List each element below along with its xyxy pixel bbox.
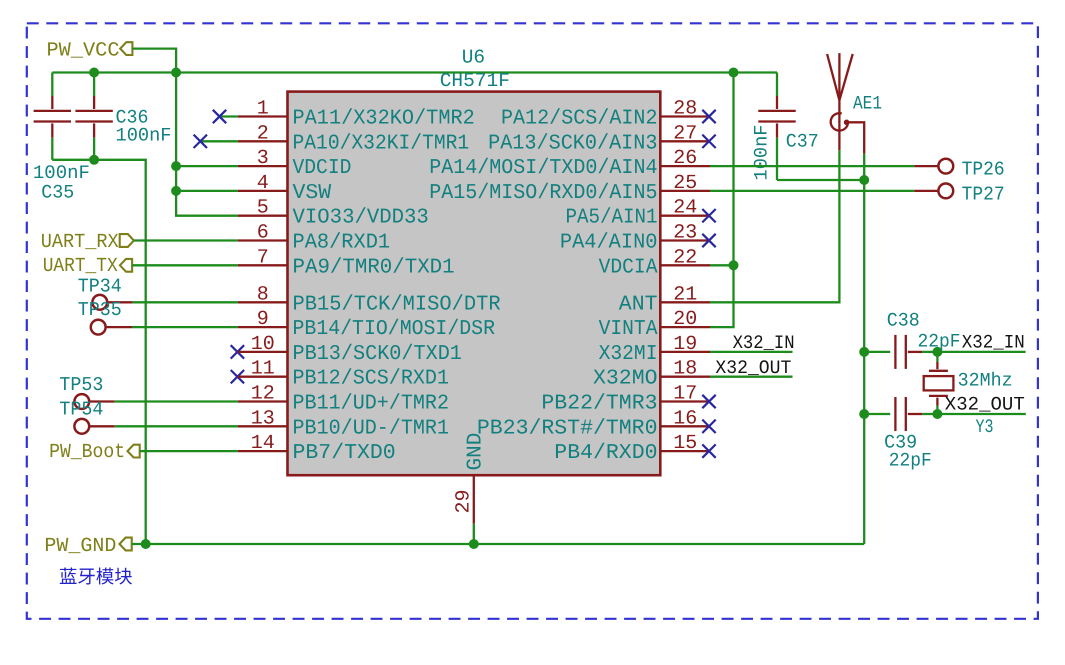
pin 14 line — [238, 450, 288, 452]
svg-text:VDCIA: VDCIA — [599, 256, 658, 279]
svg-text:7: 7 — [257, 246, 269, 269]
svg-text:8: 8 — [257, 283, 269, 306]
wire to pin3 — [176, 165, 238, 167]
svg-text:PA15/MISO/RXD0/AIN5: PA15/MISO/RXD0/AIN5 — [429, 182, 657, 205]
svg-text:26: 26 — [673, 147, 697, 170]
svg-text:PA8/RXD1: PA8/RXD1 — [293, 232, 391, 255]
svg-text:GND: GND — [464, 433, 487, 471]
no-connect pin11 — [231, 370, 244, 383]
svg-text:PA9/TMR0/TXD1: PA9/TMR0/TXD1 — [293, 256, 455, 279]
svg-text:C38: C38 — [887, 310, 920, 332]
junction crystal top — [932, 347, 942, 357]
pin 19 line — [660, 351, 710, 353]
UART_TX port glyph — [120, 259, 132, 272]
wire UART_RX to pin6 — [134, 239, 238, 241]
junction C36 bottom — [89, 155, 99, 165]
wire TP35 to pin9 — [132, 326, 238, 328]
svg-text:PA12/SCS/AIN2: PA12/SCS/AIN2 — [501, 108, 658, 131]
svg-text:PB12/SCS/RXD1: PB12/SCS/RXD1 — [293, 368, 450, 391]
no-connect pin23 — [702, 234, 715, 247]
pin 25 line — [660, 190, 710, 192]
svg-text:PW_GND: PW_GND — [44, 535, 116, 558]
test point TP27 — [914, 190, 939, 192]
pin 24 line — [660, 215, 710, 217]
svg-text:VINTA: VINTA — [599, 318, 658, 341]
no-connect pin24 — [702, 209, 715, 222]
junction crystal bottom — [932, 409, 942, 419]
test point TP34 — [92, 295, 107, 310]
svg-text:UART_RX: UART_RX — [41, 231, 119, 254]
crystal Y3 32Mhz — [936, 352, 938, 362]
svg-text:20: 20 — [673, 308, 697, 331]
svg-text:3: 3 — [257, 147, 269, 170]
svg-text:22pF: 22pF — [918, 330, 961, 352]
wire pin29 to GND rail — [473, 524, 475, 544]
pin 12 line — [238, 400, 288, 402]
wire C38 to X32_IN right — [922, 351, 1026, 353]
pin 17 line — [660, 400, 710, 402]
pin 27 line — [660, 140, 710, 142]
wire top VCC rail — [52, 71, 777, 73]
svg-text:PB7/TXD0: PB7/TXD0 — [293, 442, 396, 465]
antenna gnd lead — [847, 122, 865, 153]
wire C37 top lead — [776, 73, 778, 97]
wire GND rail — [132, 543, 865, 545]
wire TP54 to pin13 — [115, 425, 238, 427]
svg-text:1: 1 — [257, 98, 269, 121]
svg-text:16: 16 — [673, 407, 697, 430]
svg-text:PB14/TIO/MOSI/DSR: PB14/TIO/MOSI/DSR — [293, 318, 496, 341]
wire antenna to pin21 — [710, 150, 839, 302]
svg-text:14: 14 — [251, 432, 275, 455]
svg-text:PW_Boot: PW_Boot — [49, 441, 125, 464]
no-connect pin10 — [231, 345, 244, 358]
svg-text:PA4/AIN0: PA4/AIN0 — [560, 232, 658, 255]
junction C38 left — [859, 347, 869, 357]
wire C37 bottom to ground rail — [777, 179, 864, 181]
pin 5 line — [238, 215, 288, 217]
svg-text:VDCID: VDCID — [293, 157, 352, 180]
caption text (blue) — [60, 568, 132, 585]
wire right gnd vertical — [863, 154, 865, 544]
svg-text:TP35: TP35 — [78, 299, 122, 321]
wire pin19 X32MI — [710, 351, 793, 353]
no-connect pin17 — [702, 395, 715, 408]
svg-text:27: 27 — [673, 122, 697, 145]
capacitor C35 — [51, 95, 53, 97]
svg-text:TP54: TP54 — [59, 399, 103, 421]
svg-text:X32MO: X32MO — [593, 368, 658, 391]
test point TP26 — [914, 165, 939, 167]
pin 20 line — [660, 326, 710, 328]
wire UART_TX to pin7 — [132, 264, 238, 266]
no-connect pin16 — [702, 420, 715, 433]
UART_RX port glyph — [120, 234, 134, 247]
svg-text:PB4/RXD0: PB4/RXD0 — [554, 442, 657, 465]
pin 11 line — [238, 376, 288, 378]
pin 21 line — [660, 301, 710, 303]
pin 10 line — [238, 351, 288, 353]
svg-text:6: 6 — [257, 222, 269, 245]
wire PW_VCC to top rail — [132, 49, 176, 73]
svg-text:PB23/RST#/TMR0: PB23/RST#/TMR0 — [477, 417, 658, 440]
wire pin1 stub — [220, 115, 238, 117]
svg-text:PW_VCC: PW_VCC — [47, 39, 120, 62]
svg-text:24: 24 — [673, 197, 697, 220]
svg-text:VSW: VSW — [293, 182, 332, 205]
svg-text:TP53: TP53 — [59, 374, 103, 396]
svg-text:100nF: 100nF — [750, 125, 772, 181]
svg-text:PB13/SCK0/TXD1: PB13/SCK0/TXD1 — [293, 343, 462, 366]
svg-text:2: 2 — [257, 122, 269, 145]
svg-text:C37: C37 — [786, 131, 819, 153]
svg-text:12: 12 — [251, 383, 275, 406]
svg-text:22: 22 — [673, 246, 697, 269]
wire pin2 stub — [200, 140, 238, 142]
svg-text:PA11/X32KO/TMR2: PA11/X32KO/TMR2 — [293, 108, 475, 131]
svg-text:X32MI: X32MI — [599, 343, 658, 366]
wire TP53 to pin12 — [115, 400, 238, 402]
pin 9 line — [238, 326, 288, 328]
PW_VCC port glyph — [120, 42, 132, 55]
svg-text:CH571F: CH571F — [440, 70, 510, 92]
svg-text:22pF: 22pF — [889, 450, 932, 472]
pin 29 line — [473, 475, 475, 524]
svg-text:10: 10 — [251, 333, 275, 356]
junction C36 top — [89, 68, 99, 78]
wire VCC down to pin5 — [176, 73, 238, 216]
junction C39 left — [859, 409, 869, 419]
no-connect pin28 — [702, 110, 715, 123]
IC U6 CH571F body — [288, 92, 661, 476]
pin 22 line — [660, 264, 710, 266]
svg-text:21: 21 — [673, 283, 697, 306]
pin 15 line — [660, 450, 710, 452]
svg-text:PA5/AIN1: PA5/AIN1 — [566, 207, 658, 230]
svg-text:X32_IN: X32_IN — [962, 331, 1025, 353]
wire PW_Boot to pin14 — [140, 450, 238, 452]
junction C37/gnd rail — [859, 175, 869, 185]
test point TP53 — [74, 394, 89, 409]
capacitor C38 — [864, 351, 890, 353]
pin 7 line — [238, 264, 288, 266]
wire to pin4 — [176, 190, 238, 192]
antenna AE1 — [827, 54, 853, 100]
wire C39 to X32_OUT right — [922, 413, 1026, 415]
junction right rail — [729, 68, 739, 78]
test point TP35 — [91, 320, 106, 335]
svg-text:TP26: TP26 — [962, 159, 1005, 181]
pin 2 line — [238, 140, 288, 142]
no-connect pin15 — [702, 444, 715, 457]
pin 23 line — [660, 239, 710, 241]
pin 8 line — [238, 301, 288, 303]
svg-text:25: 25 — [673, 172, 697, 195]
pin 13 line — [238, 425, 288, 427]
svg-text:11: 11 — [251, 358, 275, 381]
svg-text:13: 13 — [251, 407, 275, 430]
wire right rail down to pin20 — [710, 73, 734, 328]
svg-text:100nF: 100nF — [116, 125, 172, 147]
pin 16 line — [660, 425, 710, 427]
wire C35 top lead — [51, 73, 53, 97]
pin 18 line — [660, 376, 710, 378]
svg-text:5: 5 — [257, 197, 269, 220]
wire pin18 X32MO — [710, 376, 793, 378]
test point TP54 — [74, 419, 89, 434]
pin 6 line — [238, 239, 288, 241]
svg-text:PB15/TCK/MISO/DTR: PB15/TCK/MISO/DTR — [293, 293, 501, 316]
svg-text:PA14/MOSI/TXD0/AIN4: PA14/MOSI/TXD0/AIN4 — [429, 157, 657, 180]
svg-text:17: 17 — [673, 383, 697, 406]
PW_GND port glyph — [120, 538, 132, 551]
svg-text:PB22/TMR3: PB22/TMR3 — [541, 393, 657, 416]
wire pin25 to TP27 — [710, 190, 914, 192]
pin 3 line — [238, 165, 288, 167]
junction VCC rail — [171, 68, 181, 78]
svg-text:PA13/SCK0/AIN3: PA13/SCK0/AIN3 — [488, 132, 657, 155]
capacitor C39 — [864, 413, 890, 415]
svg-text:PB10/UD-/TMR1: PB10/UD-/TMR1 — [293, 417, 450, 440]
svg-text:18: 18 — [673, 358, 697, 381]
wire pin26 to TP26 — [710, 165, 914, 167]
svg-text:19: 19 — [673, 333, 697, 356]
junction GND pin29 — [469, 539, 479, 549]
svg-text:15: 15 — [673, 432, 697, 455]
PW_Boot port glyph — [128, 445, 140, 458]
pin 4 line — [238, 190, 288, 192]
svg-text:AE1: AE1 — [853, 92, 882, 114]
svg-text:28: 28 — [673, 98, 697, 121]
wire caps bottom to GND vertical — [52, 160, 145, 544]
pin 28 line — [660, 115, 710, 117]
capacitor C36 — [93, 73, 95, 97]
junction pin4 — [171, 186, 181, 196]
svg-text:VIO33/VDD33: VIO33/VDD33 — [293, 207, 429, 230]
svg-text:4: 4 — [257, 172, 269, 195]
svg-text:TP27: TP27 — [962, 183, 1005, 205]
svg-text:9: 9 — [257, 308, 269, 331]
no-connect pin2 — [194, 135, 207, 148]
svg-text:PB11/UD+/TMR2: PB11/UD+/TMR2 — [293, 393, 450, 416]
junction GND left vertical — [141, 539, 151, 549]
svg-text:23: 23 — [673, 222, 697, 245]
wire pin22 to rail — [710, 264, 734, 266]
svg-text:C35: C35 — [41, 181, 74, 203]
svg-text:Y3: Y3 — [976, 416, 994, 438]
svg-text:PA10/X32KI/TMR1: PA10/X32KI/TMR1 — [293, 132, 470, 155]
junction pin22 — [729, 260, 739, 270]
svg-text:U6: U6 — [462, 46, 485, 68]
pin 26 line — [660, 165, 710, 167]
no-connect pin1 — [213, 110, 226, 123]
svg-text:ANT: ANT — [619, 293, 658, 316]
wire TP34 to pin8 — [133, 301, 238, 303]
svg-text:X32_IN: X32_IN — [733, 332, 795, 354]
capacitor C37 — [776, 95, 778, 97]
svg-text:29: 29 — [453, 489, 476, 513]
no-connect pin27 — [702, 135, 715, 148]
junction pin3 — [171, 161, 181, 171]
svg-text:32Mhz: 32Mhz — [958, 370, 1013, 392]
svg-text:X32_OUT: X32_OUT — [945, 393, 1025, 415]
pin 1 line — [238, 115, 288, 117]
